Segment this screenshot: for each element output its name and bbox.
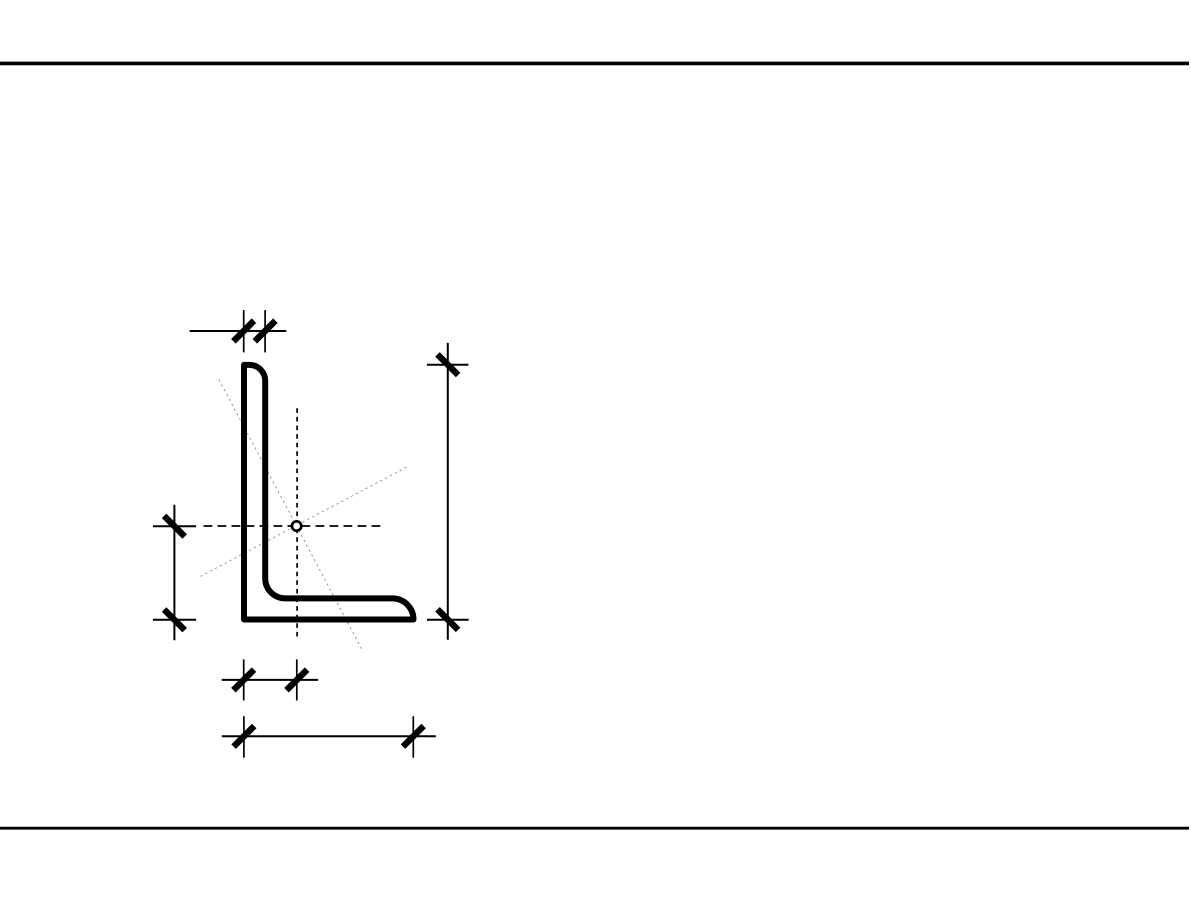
height dimension: bottom stub (427, 619, 469, 621)
width dimension: extension line right (412, 716, 414, 758)
height dimension tick bottom (438, 609, 459, 630)
principal axis 1 (steep, gray dashed) (219, 380, 363, 652)
centroid-y dimension line (left side) (173, 505, 175, 641)
centroid circle (292, 521, 301, 530)
height dimension line (right side) (447, 343, 449, 640)
centroid-y dimension tick bottom (164, 610, 185, 631)
centroid-y dimension tick top (164, 516, 185, 537)
centroid vertical dashed axis (296, 408, 298, 639)
centroid-x dimension: extension line left (243, 659, 245, 700)
top page rule (0, 62, 1189, 66)
width dimension tick left (234, 726, 255, 747)
centroid horizontal dashed axis (204, 525, 382, 527)
thickness dimension line (190, 330, 287, 332)
thickness dimension tick left (233, 321, 254, 342)
centroid-x dimension line (222, 679, 319, 681)
width dimension: extension line left (243, 716, 245, 758)
height dimension tick top (438, 354, 459, 375)
thickness dimension: extension line right (264, 310, 266, 352)
thickness dimension tick right (255, 321, 276, 342)
centroid-y dimension: bottom stub (153, 619, 196, 621)
principal axis 2 (shallow, gray dashed) (200, 466, 408, 576)
thickness dimension: extension line left (243, 310, 245, 352)
height dimension: top stub (427, 364, 469, 366)
width dimension line (222, 735, 436, 737)
centroid-y dimension: top stub (153, 525, 196, 527)
centroid-x dimension tick right (287, 670, 308, 691)
bottom page rule (0, 827, 1189, 830)
centroid-x dimension: extension line right (296, 659, 298, 700)
L-angle profile outline (244, 365, 414, 620)
centroid-x dimension tick left (233, 670, 254, 691)
width dimension tick right (403, 726, 424, 747)
